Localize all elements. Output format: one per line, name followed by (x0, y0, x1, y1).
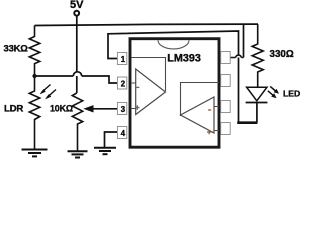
wire 5V stem down to pot (76, 16, 78, 93)
wire pin 8 with hop over LED wire (230, 57, 244, 59)
ground (pot) (68, 151, 88, 157)
wire pin 4 to ground (105, 132, 118, 148)
wire LED loop bottom (237, 121, 257, 124)
LDR light arrows (42, 85, 51, 93)
op-amp U1 LM393 IC body (130, 39, 219, 148)
5V supply terminal (70, 0, 84, 16)
pin 4 (117, 127, 126, 139)
wire VCC drop to pin 8 (243, 24, 245, 57)
wire pin 1 loop to LED cathode (108, 31, 239, 122)
svg-text:5V: 5V (70, 0, 84, 11)
LED light arrows (270, 86, 277, 92)
plus A (135, 105, 139, 109)
svg-text:4: 4 (121, 129, 126, 138)
wire junction to pin 2 with hop over pot stem (35, 76, 118, 83)
IC notch (158, 40, 189, 49)
LED D1 (246, 86, 301, 122)
comparator A triangle (131, 58, 166, 115)
svg-text:3: 3 (121, 105, 126, 114)
resistor R1 33KΩ (4, 26, 40, 77)
potentiometer 10KΩ (50, 93, 118, 151)
pot wiper arrow (90, 108, 118, 110)
pin 2 (117, 77, 126, 89)
pin 7 (221, 75, 231, 87)
input stubs (131, 83, 136, 109)
pin 3 (117, 103, 126, 115)
minus A (136, 86, 139, 88)
plus B (207, 130, 211, 134)
pin 1 (117, 53, 126, 65)
svg-text:2: 2 (121, 80, 126, 89)
LDR (4, 76, 56, 149)
internal wire output B to pin 7 (181, 83, 220, 117)
svg-text:LM393: LM393 (167, 53, 201, 65)
input stubs (214, 107, 219, 131)
svg-text:LDR: LDR (4, 104, 23, 115)
ground (pin 4) (94, 148, 116, 155)
minus B (208, 109, 211, 111)
svg-text:33KΩ: 33KΩ (4, 43, 29, 54)
ground (LDR) (22, 150, 48, 157)
pin 6 (221, 101, 231, 113)
svg-text:1: 1 (121, 55, 126, 64)
svg-text:330Ω: 330Ω (270, 49, 294, 60)
node A junction 33K/LDR (32, 74, 36, 78)
wire 5V rail top (35, 24, 259, 25)
comparator B triangle (181, 83, 220, 135)
pin 5 (221, 123, 231, 135)
svg-text:10KΩ: 10KΩ (50, 103, 73, 113)
svg-text:LED: LED (283, 89, 300, 99)
pin 8 (221, 52, 231, 64)
internal wire pin1 to output A (132, 58, 166, 92)
resistor 330Ω (252, 24, 294, 86)
